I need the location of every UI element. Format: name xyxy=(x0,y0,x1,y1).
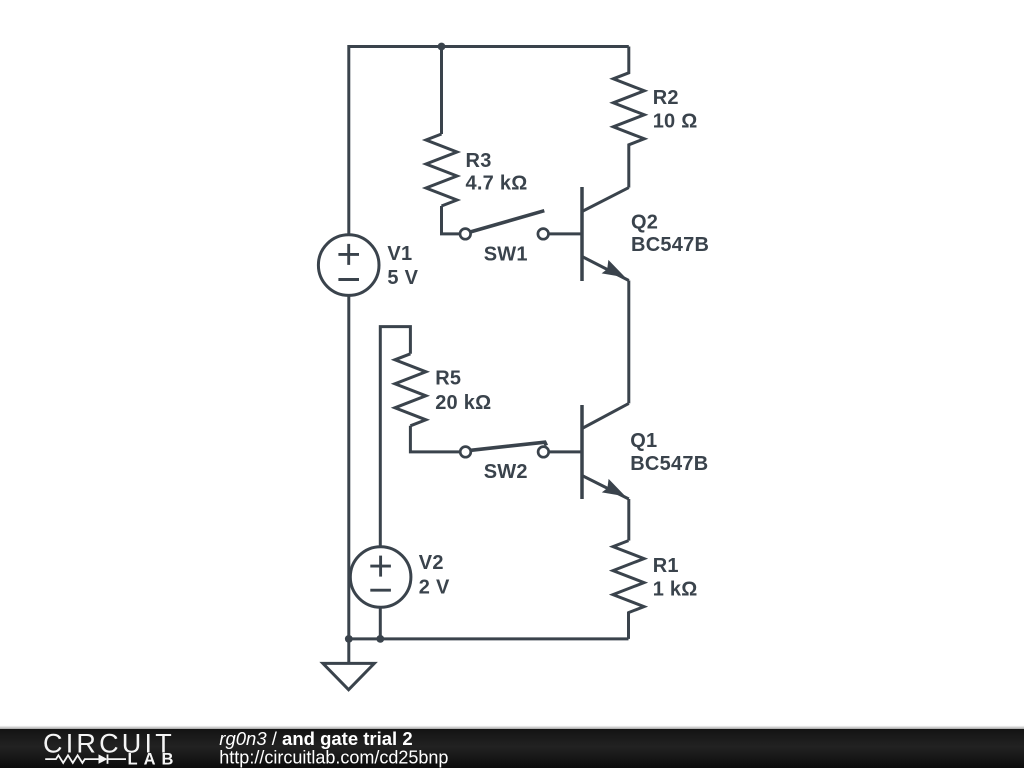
svg-text:V2: V2 xyxy=(419,552,444,574)
wire bottom ground rail xyxy=(349,637,629,640)
svg-text:4.7 kΩ: 4.7 kΩ xyxy=(466,173,528,195)
switch SW1 xyxy=(460,211,549,266)
wire SW1 to Q2 base xyxy=(549,232,582,235)
node A supply junction xyxy=(438,43,446,51)
transistor Q2 xyxy=(582,187,709,281)
wire V1 to ground rail xyxy=(347,296,350,639)
svg-text:2 V: 2 V xyxy=(419,576,450,598)
resistor R3 xyxy=(426,134,528,206)
wire R1 to ground rail xyxy=(627,612,630,639)
CircuitLab logo resistor-diode glyph xyxy=(45,754,126,763)
voltage source V1 xyxy=(318,235,418,296)
wire top rail xyxy=(349,45,629,48)
transistor Q1 xyxy=(582,403,708,499)
resistor R1 xyxy=(613,541,698,613)
svg-text:BC547B: BC547B xyxy=(631,234,709,256)
svg-text:http://circuitlab.com/cd25bnp: http://circuitlab.com/cd25bnp xyxy=(219,748,448,768)
svg-text:1 kΩ: 1 kΩ xyxy=(653,578,698,600)
wire junction to R3 xyxy=(440,47,443,135)
svg-text:V1: V1 xyxy=(387,243,412,265)
svg-text:R1: R1 xyxy=(653,555,679,577)
wire V2 to ground rail xyxy=(379,608,382,639)
voltage source V2 xyxy=(350,547,450,608)
footer bar xyxy=(0,726,1024,768)
svg-text:R5: R5 xyxy=(435,367,461,389)
svg-text:SW1: SW1 xyxy=(484,243,528,265)
wire R3 to SW1 xyxy=(442,206,460,234)
node ground junction V2 xyxy=(376,635,384,643)
resistor R5 xyxy=(395,354,492,426)
svg-text:LAB: LAB xyxy=(128,750,180,768)
svg-text:20 kΩ: 20 kΩ xyxy=(435,392,491,414)
svg-text:Q2: Q2 xyxy=(631,211,658,233)
wire SW2 to Q1 base xyxy=(549,450,582,453)
svg-text:SW2: SW2 xyxy=(484,461,528,483)
wire Q2 emitter to Q1 collector xyxy=(627,281,630,404)
wire R5 to SW2 xyxy=(410,426,460,452)
svg-text:10 Ω: 10 Ω xyxy=(653,110,698,132)
wire V2 up and over to R5 xyxy=(380,327,410,546)
node ground junction V1 xyxy=(345,635,353,643)
svg-text:rg0n3 / and gate trial 2: rg0n3 / and gate trial 2 xyxy=(219,728,412,749)
switch SW2 xyxy=(460,442,549,483)
svg-text:R2: R2 xyxy=(653,87,679,109)
svg-text:5 V: 5 V xyxy=(387,267,418,289)
wire Q1 emitter to R1 xyxy=(627,499,630,541)
svg-text:R3: R3 xyxy=(466,150,492,172)
svg-text:BC547B: BC547B xyxy=(630,453,708,475)
wire R2 to Q2 collector xyxy=(627,158,630,188)
ground xyxy=(323,639,374,690)
svg-text:Q1: Q1 xyxy=(630,430,657,452)
resistor R2 xyxy=(613,47,697,159)
wire left rail to V1 xyxy=(347,45,350,235)
